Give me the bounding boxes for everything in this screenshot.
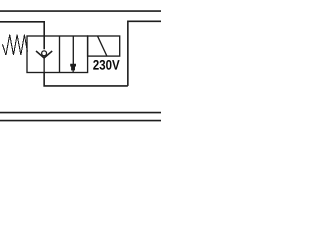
check seat V (36, 51, 52, 58)
spring (return spring, left) (3, 35, 28, 55)
valve V1 position divider (59, 36, 61, 73)
check ball (42, 51, 47, 56)
solenoid coil U1 box (88, 36, 120, 56)
wire left upper to valve port 1 (0, 22, 44, 50)
label 230V (93, 60, 119, 70)
valve V1 body (2/2-way seat valve, two positions) (27, 36, 88, 73)
wire bottom line A (0, 112, 161, 114)
wire top supply line (0, 10, 161, 12)
wire bottom line B (0, 120, 161, 122)
plug poppet (filled) (70, 64, 76, 73)
solenoid diagonal (98, 36, 107, 56)
ball lower stem (43, 56, 45, 72)
wire bottom U from valve port 2 (44, 73, 128, 86)
plug stem (72, 36, 74, 64)
wire right upper from corner to edge (128, 21, 161, 86)
